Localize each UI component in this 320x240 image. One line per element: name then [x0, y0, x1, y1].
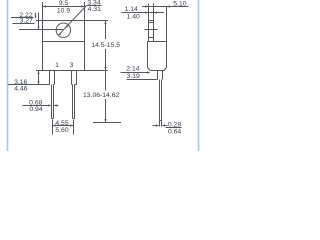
- svg-text:4.46: 4.46: [14, 86, 27, 93]
- svg-text:5.10: 5.10: [173, 0, 186, 7]
- svg-text:2.14: 2.14: [126, 66, 139, 73]
- svg-text:9.5: 9.5: [59, 0, 69, 7]
- svg-text:1.40: 1.40: [127, 13, 140, 20]
- svg-text:0.28: 0.28: [168, 121, 181, 128]
- svg-text:10.9: 10.9: [57, 7, 70, 14]
- svg-text:4.31: 4.31: [88, 6, 101, 13]
- svg-text:0.94: 0.94: [29, 106, 42, 113]
- svg-text:3.19: 3.19: [127, 73, 140, 80]
- svg-text:14.5-15.5: 14.5-15.5: [91, 42, 120, 49]
- svg-text:0.64: 0.64: [168, 129, 181, 136]
- svg-text:3.27: 3.27: [20, 18, 33, 25]
- svg-text:13.06-14.62: 13.06-14.62: [83, 92, 120, 99]
- svg-text:5.60: 5.60: [55, 127, 68, 134]
- svg-text:3: 3: [70, 62, 74, 69]
- svg-text:1.14: 1.14: [125, 6, 138, 13]
- svg-text:4.55: 4.55: [55, 120, 68, 127]
- svg-text:1: 1: [55, 62, 59, 69]
